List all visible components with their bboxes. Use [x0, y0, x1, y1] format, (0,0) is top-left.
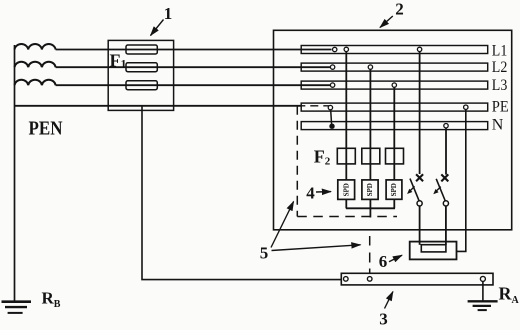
leader arrow 6: [389, 255, 402, 262]
terminal circle L1 gap tap: [417, 47, 421, 51]
leader arrow 3: [385, 292, 393, 309]
busbar N: [301, 122, 488, 130]
svg-text:3: 3: [379, 310, 388, 329]
bonding bar 3: [341, 273, 493, 285]
terminal circle N tap: [444, 124, 448, 128]
svg-text:1: 1: [164, 4, 173, 23]
terminal circle L1 SPD tap: [344, 47, 348, 51]
svg-text:PE: PE: [492, 98, 509, 115]
leader arrow 5b: [272, 245, 361, 251]
transformer winding L2: [15, 62, 56, 67]
svg-text:PEN: PEN: [29, 118, 63, 140]
wire drop L3 to SPD3: [393, 87, 395, 209]
svg-text:6: 6: [379, 252, 388, 271]
svg-text:SPD: SPD: [390, 183, 398, 196]
SPD 3: [386, 180, 402, 199]
leader arrow 2: [380, 16, 393, 28]
terminal circle bar3 mid: [367, 277, 372, 282]
fuse box F1: [108, 40, 173, 110]
ground RB: [2, 302, 32, 313]
fuse F2 pole 2: [362, 148, 380, 164]
distribution board 2 (enclosure): [274, 30, 512, 230]
terminal circle bar3 left: [344, 277, 349, 282]
wire drop L2 to SPD2: [369, 69, 371, 209]
fuse F1 pole L2: [126, 63, 157, 72]
box 6 outer (test/counter box): [410, 242, 457, 260]
svg-text:4: 4: [306, 183, 315, 202]
SPD 1: [338, 180, 355, 200]
wire N to gap 2: [445, 127, 447, 175]
dashed connection to bonding bar: [369, 236, 371, 276]
svg-text:SPD: SPD: [342, 183, 350, 196]
wire PE to box 6: [457, 109, 466, 252]
svg-text:F2: F2: [314, 146, 331, 167]
terminal circle L1 feed: [333, 47, 337, 51]
busbar L1: [301, 46, 488, 54]
PE-N bridge link: [331, 109, 332, 125]
wire drop L1 to SPD1: [345, 51, 347, 208]
terminal circle L2 feed: [330, 65, 334, 69]
wire gap2 to box 6: [445, 206, 447, 245]
busbar PE: [301, 103, 488, 111]
dashed boundary 5 bottom edge: [297, 216, 397, 218]
svg-text:L1: L1: [492, 42, 508, 59]
box 6 inner: [421, 245, 446, 252]
fuse F2 pole 1: [337, 148, 355, 164]
leader arrow 4: [316, 191, 331, 193]
dashed boundary 5 left edge: [296, 106, 298, 217]
fuse F1 pole L1: [126, 45, 157, 54]
wire star point vertical to earth RB: [14, 45, 16, 301]
leader arrow 5a: [271, 202, 294, 248]
wire bar3 to earth RA: [482, 281, 484, 301]
svg-text:RB: RB: [42, 289, 61, 311]
wire L1 feed: [56, 49, 332, 51]
junction dot N bridge: [329, 124, 334, 129]
svg-text:SPD: SPD: [366, 183, 374, 196]
svg-text:RA: RA: [499, 284, 520, 307]
svg-text:5: 5: [260, 244, 269, 263]
wire stub below bus: [369, 208, 371, 217]
wire gap1 to box 6: [419, 206, 421, 245]
svg-text:F1: F1: [110, 51, 127, 71]
terminal circle L3 SPD tap: [392, 83, 396, 87]
protective gap 1: [407, 174, 423, 206]
wire SPD common bus: [346, 207, 395, 209]
ground RA: [468, 301, 498, 310]
svg-text:N: N: [492, 116, 504, 133]
protective gap 2: [433, 174, 448, 206]
wire L2 feed: [56, 66, 332, 68]
wire PEN: [15, 105, 303, 107]
wire PEN drop to bonding bar: [142, 106, 341, 280]
terminal circle PE tap: [464, 105, 468, 109]
wire L3 feed: [56, 84, 332, 86]
terminal circle bar3 right: [480, 276, 485, 281]
busbar L3: [301, 81, 488, 89]
fuse F2 pole 3: [386, 148, 404, 164]
SPD 2: [362, 180, 378, 200]
svg-text:2: 2: [395, 0, 404, 19]
terminal circle L2 SPD tap: [368, 65, 372, 69]
transformer winding L3: [15, 80, 56, 85]
leader arrow 1: [151, 20, 164, 36]
dashed boundary 5 top edge: [297, 105, 329, 107]
terminal circle L3 feed: [330, 83, 334, 87]
svg-text:L2: L2: [492, 59, 508, 76]
busbar L2: [301, 63, 488, 71]
terminal circle PE bridge: [328, 105, 332, 109]
transformer winding L1: [15, 44, 56, 49]
wire L1 to gap 1: [419, 51, 421, 174]
svg-text:L3: L3: [492, 77, 508, 94]
fuse F1 pole L3: [126, 81, 157, 90]
